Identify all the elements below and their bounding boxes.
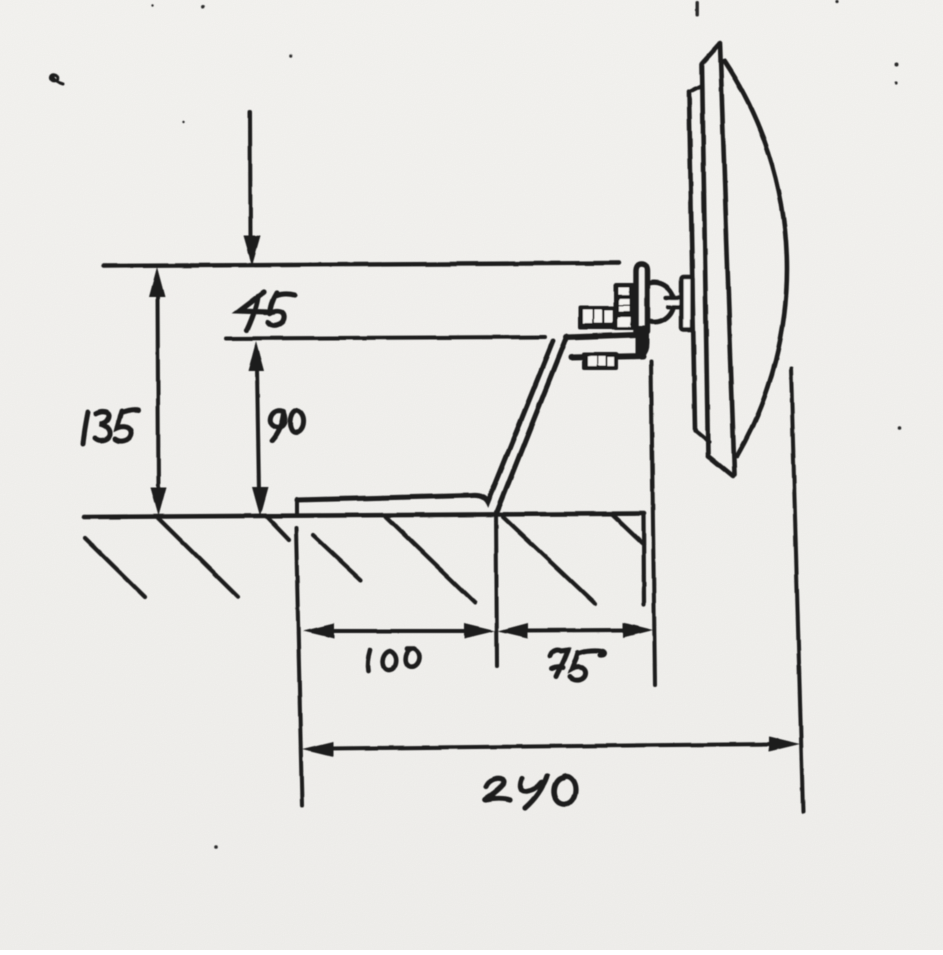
mirror rim right edge xyxy=(720,43,735,475)
squiggle mark top-left xyxy=(50,74,63,84)
speck marks (scan noise) xyxy=(151,0,901,848)
bracket diagonal strut right edge xyxy=(497,336,567,512)
hatch line 1 xyxy=(85,538,145,597)
bracket arm bottom edge xyxy=(571,356,643,358)
extension line right of 240 xyxy=(791,368,803,812)
bracket foot plate on ground xyxy=(297,341,553,502)
hatch line 2 xyxy=(158,518,238,597)
mirror back top slant xyxy=(689,86,702,93)
dimension line 240 xyxy=(329,744,773,749)
extension divider line (100/75) xyxy=(496,512,497,666)
label 90 xyxy=(270,410,304,441)
dimension line 135 (vertical) xyxy=(158,294,159,492)
label 135 xyxy=(83,410,139,444)
mirror back bottom slant xyxy=(695,430,709,442)
label 75 xyxy=(550,650,604,680)
label 100 xyxy=(368,649,420,671)
extension line left (x=296) xyxy=(296,528,302,806)
extension line right of 75 xyxy=(651,361,655,685)
bracket arm right end corner (solid) xyxy=(635,326,649,358)
hatch line 5 xyxy=(386,517,475,603)
mirror back outer line xyxy=(689,92,695,430)
mirror rim bottom slant xyxy=(708,456,733,477)
bracket vertical post (rounded top) xyxy=(636,264,648,335)
bracket arm top edge xyxy=(566,335,636,338)
mirror convex dome arc xyxy=(724,61,787,456)
lower bolt (below arm) xyxy=(582,353,618,371)
upper bolt stack on post xyxy=(614,283,636,330)
ground surface line xyxy=(84,514,644,518)
upper reference line (mirror top level) xyxy=(103,263,619,266)
ball joint xyxy=(650,282,674,322)
dimension line 75 xyxy=(524,628,627,633)
hatch line 4 xyxy=(313,535,361,580)
bracket foot left end xyxy=(295,499,299,514)
label 240 xyxy=(485,776,576,808)
mirror rim left edge xyxy=(702,64,708,456)
hatch line 6 xyxy=(503,517,595,604)
label 45 xyxy=(239,292,295,330)
mirror mounting plate xyxy=(682,277,693,330)
dimension arrow 45 top (down arrow from above) xyxy=(248,112,253,240)
lower reference line (bracket top level) xyxy=(226,337,545,339)
ball joint stem xyxy=(669,300,683,305)
dimension line 100 xyxy=(330,629,468,633)
dimension line 90 (vertical) xyxy=(257,368,259,492)
hatch right boundary vertical xyxy=(641,515,646,605)
left bolt (horizontal) xyxy=(578,306,615,330)
hatch corner diagonal xyxy=(612,515,643,544)
mirror rim peak slant xyxy=(703,44,720,63)
hatch line 3 (short) xyxy=(266,516,289,540)
